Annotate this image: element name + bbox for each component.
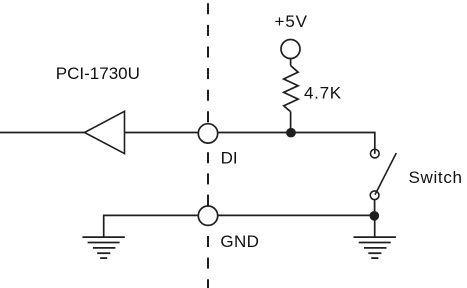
svg-text:DI: DI [221, 148, 238, 167]
svg-text:+5V: +5V [275, 12, 308, 31]
switch S1 bottom contact [370, 191, 379, 200]
svg-text:GND: GND [220, 232, 259, 251]
switch S1 top contact [370, 149, 379, 158]
wire (from +5V terminal to resistor) [290, 59, 292, 66]
wire (switch bottom contact to bottom junction) [374, 200, 376, 216]
wire (bottom junction to right ground stem) [374, 216, 376, 237]
junction (resistor / DI rail) [286, 128, 296, 138]
ground (right earth symbol) [354, 237, 396, 258]
node DI (connector pin circle) [198, 124, 217, 143]
wire (DI node to corner, down to switch top contact) [218, 133, 375, 150]
wire (input rail from left edge to buffer apex) [0, 132, 85, 134]
svg-text:4.7K: 4.7K [304, 84, 342, 103]
op-amp buffer U1 (left-pointing triangle) [85, 111, 125, 153]
boundary dashed line (upper segment) [207, 3, 209, 123]
node GND (connector pin circle) [198, 206, 217, 225]
resistor R 4.7K (zigzag) [284, 66, 298, 112]
boundary dashed line (middle segment) [207, 152, 209, 205]
wire (stub into top contact) [374, 149, 376, 154]
wire (GND node left, corner down to left ground) [104, 215, 198, 236]
wire (bottom rail: GND node to junction) [218, 214, 374, 216]
switch S1 blade [375, 153, 396, 195]
wire (resistor bottom to junction) [290, 112, 292, 133]
junction (switch / ground rail) [369, 211, 379, 221]
svg-text:Switch: Switch [409, 168, 463, 187]
boundary dashed line (lower segment) [207, 236, 209, 288]
svg-text:PCI-1730U: PCI-1730U [56, 64, 140, 83]
power +5V terminal circle [281, 40, 300, 59]
wire (buffer output to DI node) [125, 132, 198, 134]
ground (left earth symbol) [82, 237, 124, 258]
